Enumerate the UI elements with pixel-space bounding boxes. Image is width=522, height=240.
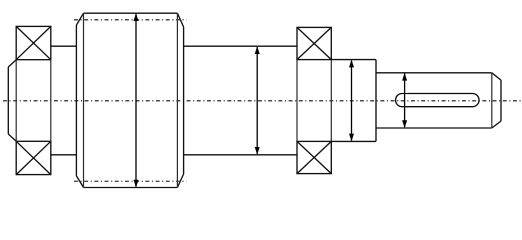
bearing 2 top box with X [297,27,331,59]
small cylinder diameter dimension arrow [349,60,354,142]
shaft end diameter dimension arrow [402,73,407,128]
gear chamfer inner verticals [84,13,178,187]
centerline (shaft axis) [3,100,521,102]
middle cylinder diameter dimension arrow [255,46,260,155]
shaft end chamfer inner vertical [491,73,493,128]
shaft end section [376,73,501,128]
left collar ring [8,60,16,142]
bearing 2 bottom box with X [297,141,331,173]
gear pitch line bottom [74,180,187,182]
bearing 1 top box with X [16,26,51,59]
small cylinder (bearing seat) [331,60,376,142]
bearing 1 bottom box with X [16,141,51,174]
gear pitch line top [74,19,187,21]
bearing 1 seat verticals between boxes [16,60,51,142]
shaft stub between bearing 1 and gear [51,46,77,155]
keyway slot [396,94,479,107]
gear diameter dimension arrow [134,13,139,187]
middle cylinder [184,46,297,155]
gear blank outline [76,13,183,187]
bearing 2 seat verticals between boxes [297,60,331,142]
